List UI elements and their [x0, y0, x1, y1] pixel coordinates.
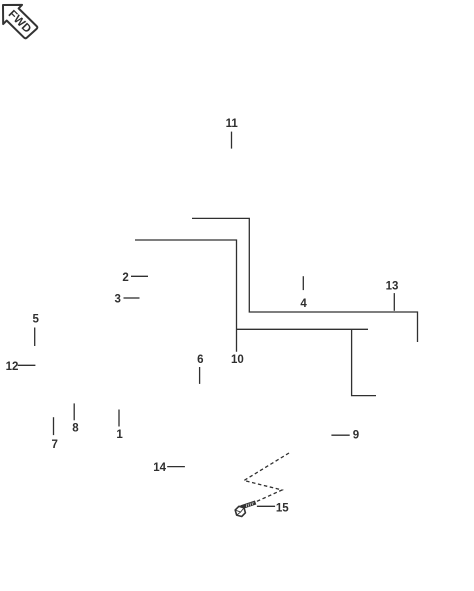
- svg-text:13: 13: [386, 281, 399, 293]
- svg-text:5: 5: [32, 314, 39, 326]
- svg-text:8: 8: [72, 423, 79, 435]
- svg-text:3: 3: [114, 293, 120, 305]
- svg-text:7: 7: [51, 439, 57, 451]
- svg-text:11: 11: [226, 118, 239, 130]
- svg-text:9: 9: [353, 430, 359, 442]
- svg-text:10: 10: [231, 354, 244, 366]
- svg-text:1: 1: [116, 429, 123, 441]
- svg-text:14: 14: [153, 462, 166, 474]
- svg-text:15: 15: [276, 503, 289, 515]
- svg-text:4: 4: [300, 298, 307, 310]
- svg-text:12: 12: [6, 361, 19, 373]
- svg-text:2: 2: [122, 272, 128, 284]
- svg-text:6: 6: [197, 354, 203, 366]
